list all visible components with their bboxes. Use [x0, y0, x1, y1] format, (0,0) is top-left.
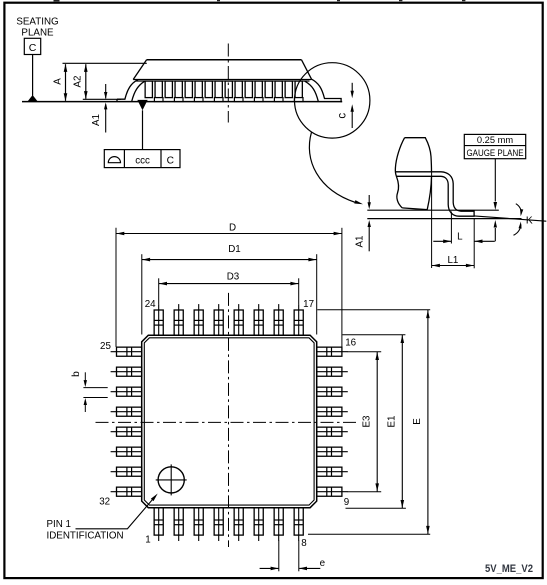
- node detail circle: [295, 63, 370, 138]
- svg-text:32: 32: [99, 497, 110, 508]
- svg-text:A1: A1: [91, 114, 102, 126]
- svg-text:e: e: [320, 558, 326, 569]
- wire seating plane baseline: [22, 101, 342, 103]
- node dim L1: [431, 172, 433, 269]
- node dim E: [317, 309, 430, 311]
- svg-text:PIN 1: PIN 1: [47, 519, 72, 530]
- svg-text:1: 1: [145, 535, 150, 546]
- svg-text:5V_ME_V2: 5V_ME_V2: [485, 563, 533, 575]
- wire detail seating line: [367, 218, 521, 220]
- svg-text:24: 24: [145, 299, 156, 310]
- svg-text:L: L: [457, 231, 463, 242]
- svg-text:A1: A1: [355, 236, 366, 248]
- node dim A: [65, 64, 67, 101]
- wire right slope: [302, 60, 312, 79]
- node dim E1: [342, 334, 405, 336]
- wire left slope: [133, 60, 146, 80]
- wire top view centerlines: [96, 421, 357, 423]
- svg-text:A2: A2: [72, 76, 83, 88]
- wire top extension line: [63, 62, 147, 64]
- node dim A2: [85, 64, 87, 99]
- node dim e: [278, 541, 280, 572]
- node dim A1: [105, 84, 107, 99]
- wire: [54, 0, 466, 1]
- transistor-free: top pin row (pins 24..17): [154, 304, 303, 335]
- node dim D1: [141, 254, 143, 334]
- svg-text:A: A: [52, 78, 63, 85]
- svg-text:17: 17: [303, 299, 314, 310]
- node ccc leader triangle: [137, 100, 147, 110]
- wire gauge plane line: [367, 209, 499, 211]
- svg-text:C: C: [167, 156, 174, 167]
- transistor-free: left pin row (pins 25..32): [111, 347, 142, 496]
- wire side view centerline: [227, 44, 229, 123]
- svg-text:K: K: [526, 215, 533, 226]
- wire: [32, 55, 34, 96]
- wire body bottom extension: [83, 98, 121, 100]
- transistor-free: bottom pin row (pins 1..8): [154, 508, 303, 541]
- node dim b: [83, 387, 107, 389]
- node dim D3: [158, 278, 160, 304]
- wire body inner line: [144, 338, 314, 505]
- node dim D: [115, 228, 117, 347]
- wire shoulder line 1: [133, 79, 311, 81]
- wire gauge leader: [494, 159, 496, 202]
- node detail lead bend: [441, 172, 474, 216]
- node dim c: [351, 83, 353, 92]
- svg-text:ccc: ccc: [135, 156, 150, 167]
- wire lead inside body top: [396, 171, 441, 173]
- transistor-free: side view pin bars: [145, 81, 302, 98]
- node feature control frame ccc: [104, 150, 180, 168]
- transistor-free: right pin row (pins 16..9): [317, 347, 348, 496]
- node dim E3: [348, 351, 382, 353]
- node dim K: [494, 228, 496, 241]
- wire pin feet strip: [154, 98, 303, 102]
- svg-text:SEATING: SEATING: [16, 17, 58, 28]
- svg-text:0.25 mm: 0.25 mm: [477, 135, 513, 145]
- node datum C box: [24, 38, 40, 54]
- svg-text:L1: L1: [447, 255, 458, 266]
- node dim A1 detail: [368, 195, 370, 204]
- wire left corner lead: [117, 80, 138, 100]
- op body outline (top view): [142, 335, 317, 508]
- svg-text:9: 9: [344, 497, 349, 508]
- svg-text:c: c: [336, 113, 348, 119]
- wire package top line: [147, 59, 302, 61]
- wire right corner lead: [311, 79, 341, 102]
- svg-text:D: D: [229, 222, 236, 233]
- node gauge plane box: [464, 134, 525, 158]
- wire shoulder line 2: [136, 80, 310, 82]
- svg-text:IDENTIFICATION: IDENTIFICATION: [47, 531, 124, 542]
- svg-text:16: 16: [345, 338, 356, 349]
- wire leader arc to detail: [309, 132, 355, 202]
- node datum triangle: [27, 95, 37, 102]
- svg-text:GAUGE PLANE: GAUGE PLANE: [467, 148, 524, 158]
- wire pin1 leader: [76, 497, 155, 529]
- svg-text:E: E: [412, 418, 423, 425]
- wire lead inside body bottom: [396, 175, 441, 177]
- svg-text:E3: E3: [362, 415, 373, 428]
- node dim L: [450, 212, 452, 244]
- node detail body outline: [405, 138, 432, 172]
- node pin1 identification circle: [158, 467, 184, 493]
- svg-text:C: C: [29, 42, 37, 54]
- svg-text:PLANE: PLANE: [21, 28, 54, 39]
- svg-text:D1: D1: [228, 244, 241, 255]
- svg-text:E1: E1: [387, 416, 398, 428]
- svg-text:D3: D3: [227, 271, 240, 282]
- svg-text:25: 25: [100, 341, 111, 352]
- svg-text:8: 8: [301, 538, 307, 549]
- svg-text:b: b: [71, 371, 82, 377]
- wire K angled foot line: [474, 216, 546, 221]
- wire: [142, 110, 144, 149]
